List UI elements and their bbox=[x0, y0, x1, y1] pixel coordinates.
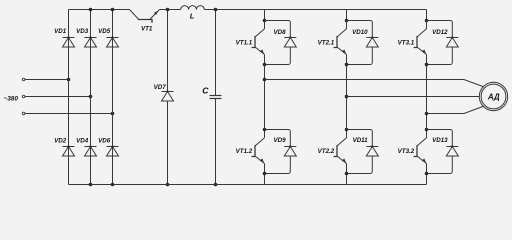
wire inverter leg 2 lower rail bbox=[346, 174, 348, 185]
svg-text:~380: ~380 bbox=[4, 95, 19, 102]
junction VT2.2 collector node bbox=[345, 128, 349, 132]
wire phase 2 input bbox=[25, 96, 91, 98]
diode VD11 bbox=[347, 130, 379, 174]
diode VD1 bbox=[54, 28, 74, 47]
svg-text:VT1.2: VT1.2 bbox=[236, 148, 253, 155]
inductor L bbox=[181, 6, 205, 21]
junction capacitor bottom node bbox=[214, 183, 218, 187]
junction phase 1 to rectifier column bbox=[67, 78, 71, 82]
svg-text:VD5: VD5 bbox=[98, 28, 111, 35]
wire rectifier column 3 bbox=[112, 10, 114, 185]
transistor VT3.1 bbox=[398, 21, 427, 65]
svg-text:VT3.1: VT3.1 bbox=[398, 39, 415, 46]
wire inverter leg 2 midpoint rail bbox=[346, 65, 348, 130]
diode VD4 bbox=[76, 137, 96, 156]
svg-text:VD12: VD12 bbox=[432, 29, 448, 36]
wire VT1 emitter to inductor bbox=[160, 9, 181, 11]
wire motor phase line 3 bbox=[427, 106, 484, 113]
wire inductor to inverter top bus bbox=[204, 9, 426, 11]
junction leg 2 phase output bbox=[345, 95, 349, 99]
wire inverter leg 3 midpoint rail bbox=[426, 65, 428, 130]
wire motor phase line 2 bbox=[347, 96, 480, 98]
svg-text:VD3: VD3 bbox=[76, 28, 89, 35]
diode VD5 bbox=[98, 28, 118, 47]
wire inverter leg 3 upper rail bbox=[426, 10, 428, 21]
wire inverter leg 2 upper rail bbox=[346, 10, 348, 21]
junction bottom bus column 2 bbox=[89, 183, 93, 187]
svg-text:C: C bbox=[202, 86, 209, 96]
wire inverter leg 1 lower rail bbox=[264, 174, 266, 185]
transistor VT3.2 bbox=[398, 130, 427, 174]
junction bottom bus column 3 bbox=[111, 183, 115, 187]
junction VT1.2 emitter node bbox=[263, 172, 267, 176]
wire inverter leg 1 midpoint rail bbox=[264, 65, 266, 130]
svg-text:L: L bbox=[190, 11, 195, 20]
wire inverter leg 3 lower rail bbox=[426, 174, 428, 185]
wire rectifier column 1 bbox=[68, 10, 70, 185]
junction capacitor top node bbox=[214, 8, 218, 12]
svg-text:VD13: VD13 bbox=[432, 137, 448, 144]
svg-text:VD11: VD11 bbox=[353, 137, 369, 144]
diode VD2 bbox=[54, 137, 74, 156]
svg-text:VD7: VD7 bbox=[154, 84, 167, 91]
diode VD12 bbox=[427, 21, 459, 65]
junction VT2.1 emitter node bbox=[345, 63, 349, 67]
svg-text:VD10: VD10 bbox=[352, 29, 368, 36]
diode VD6 bbox=[98, 137, 118, 156]
svg-text:VT2.2: VT2.2 bbox=[318, 148, 335, 155]
junction top bus column 2 bbox=[89, 8, 93, 12]
wire bottom DC bus bbox=[69, 184, 427, 186]
diode VD9 bbox=[265, 130, 297, 174]
svg-text:VD1: VD1 bbox=[54, 28, 67, 35]
transistor VT1.1 bbox=[236, 21, 265, 65]
input terminal phase 1 bbox=[22, 78, 25, 81]
svg-text:VT1.1: VT1.1 bbox=[236, 39, 253, 46]
diode VD7 bbox=[154, 10, 174, 185]
motor AD (asynchronous motor) bbox=[479, 82, 507, 110]
capacitor C bbox=[202, 10, 221, 185]
svg-text:VT3.2: VT3.2 bbox=[398, 148, 415, 155]
junction leg 1 phase output bbox=[263, 78, 267, 82]
junction phase 2 to rectifier column bbox=[89, 95, 93, 99]
junction VT1.1 emitter node bbox=[263, 63, 267, 67]
junction VT2.2 emitter node bbox=[345, 172, 349, 176]
junction VT3.1 emitter node bbox=[425, 63, 429, 67]
svg-text:VD4: VD4 bbox=[76, 137, 89, 144]
wire rectifier column 2 bbox=[90, 10, 92, 185]
transistor VT1 bbox=[130, 10, 160, 33]
junction phase 3 to rectifier column bbox=[111, 112, 115, 116]
input terminal phase 3 bbox=[22, 112, 25, 115]
junction VT1.2 collector node bbox=[263, 128, 267, 132]
transistor VT1.2 bbox=[236, 130, 265, 174]
junction VD7 bottom node bbox=[166, 183, 170, 187]
junction VT2.1 collector node bbox=[345, 19, 349, 23]
svg-text:VD6: VD6 bbox=[98, 137, 111, 144]
transistor VT2.2 bbox=[318, 130, 347, 174]
junction top bus column 3 bbox=[111, 8, 115, 12]
svg-text:VD2: VD2 bbox=[54, 137, 67, 144]
svg-text:АД: АД bbox=[487, 93, 500, 102]
diode VD8 bbox=[265, 21, 297, 65]
svg-text:VT2.1: VT2.1 bbox=[318, 39, 335, 46]
diode VD10 bbox=[347, 21, 379, 65]
diode VD3 bbox=[76, 28, 96, 47]
wire phase 3 input bbox=[25, 113, 113, 115]
junction VD7 top node bbox=[166, 8, 170, 12]
wire motor phase line 1 bbox=[265, 80, 484, 87]
diode VD13 bbox=[427, 130, 459, 174]
transistor VT2.1 bbox=[318, 21, 347, 65]
svg-text:VD9: VD9 bbox=[274, 137, 287, 144]
junction VT1.1 collector node bbox=[263, 19, 267, 23]
label ~380 supply bbox=[4, 95, 19, 102]
svg-text:VT1: VT1 bbox=[141, 26, 153, 33]
junction VT3.2 collector node bbox=[425, 128, 429, 132]
junction leg 3 phase output bbox=[425, 112, 429, 116]
svg-text:VD8: VD8 bbox=[274, 29, 287, 36]
wire top DC bus (rectifier to VT1) bbox=[69, 9, 130, 11]
wire inverter leg 1 upper rail bbox=[264, 10, 266, 21]
input terminal phase 2 bbox=[22, 95, 25, 98]
junction VT3.2 emitter node bbox=[425, 172, 429, 176]
wire phase 1 input bbox=[25, 79, 69, 81]
junction VT3.1 collector node bbox=[425, 19, 429, 23]
